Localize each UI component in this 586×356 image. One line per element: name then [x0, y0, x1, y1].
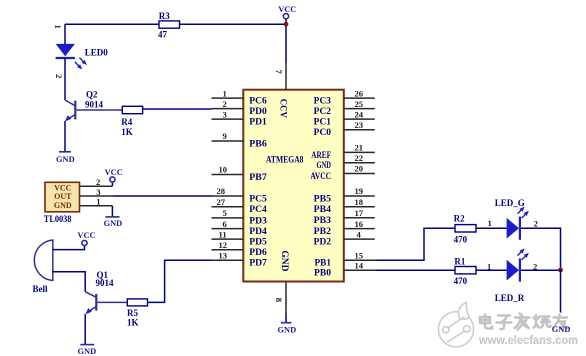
- wire LED_R cathode to right rail: [521, 269, 561, 271]
- svg-text:PB3: PB3: [314, 215, 332, 225]
- svg-text:8: 8: [274, 298, 284, 303]
- svg-text:4: 4: [357, 229, 362, 239]
- svg-text:PC1: PC1: [314, 117, 332, 127]
- pin 7 stub top: [285, 62, 287, 90]
- ground under chip pin 8: [281, 322, 292, 324]
- svg-text:2: 2: [534, 219, 538, 229]
- svg-text:GND: GND: [280, 250, 290, 272]
- resistor R2: [455, 225, 476, 232]
- pin 9 PB6: [212, 140, 244, 142]
- svg-text:16: 16: [355, 219, 364, 229]
- svg-text:11: 11: [219, 229, 227, 239]
- wire R4 to chip pin 2: [143, 108, 212, 110]
- svg-text:PD6: PD6: [249, 247, 267, 257]
- pin 5 PD3: [212, 217, 244, 219]
- svg-text:1: 1: [96, 197, 100, 207]
- resistor R1: [455, 267, 476, 274]
- resistor R4: [122, 106, 142, 113]
- svg-text:PC5: PC5: [249, 193, 267, 203]
- node junction top: [284, 22, 289, 27]
- pin 17 PB3: [344, 217, 375, 219]
- pin 2 PD0: [212, 108, 244, 110]
- svg-text:13: 13: [219, 251, 228, 261]
- svg-text:VCC: VCC: [54, 183, 72, 192]
- wire LED0 cathode to Q2 collector: [64, 58, 66, 100]
- svg-text:VCC: VCC: [105, 168, 123, 177]
- svg-text:PD3: PD3: [249, 215, 267, 225]
- svg-text:12: 12: [219, 240, 228, 250]
- pin 28 PC5: [212, 195, 244, 197]
- svg-text:3: 3: [223, 109, 227, 119]
- svg-text:2: 2: [223, 99, 227, 109]
- svg-text:PB6: PB6: [249, 138, 267, 148]
- pin 13 PD7: [212, 259, 244, 261]
- svg-text:5: 5: [223, 208, 227, 218]
- wire right rail to ground: [560, 270, 562, 322]
- svg-text:1: 1: [223, 88, 227, 98]
- svg-text:R1: R1: [454, 256, 465, 266]
- svg-text:www.elecfans.com: www.elecfans.com: [478, 334, 578, 347]
- svg-text:9014: 9014: [96, 278, 115, 288]
- svg-text:PC6: PC6: [249, 96, 267, 106]
- svg-text:470: 470: [454, 234, 468, 244]
- svg-text:19: 19: [355, 186, 364, 196]
- LED LED_R: [507, 260, 519, 281]
- pin 24 PC1: [344, 118, 375, 120]
- wire LED_G cathode to right rail: [521, 228, 561, 270]
- svg-text:R3: R3: [159, 11, 170, 21]
- svg-text:6: 6: [223, 219, 228, 229]
- svg-text:9: 9: [223, 131, 227, 141]
- wire PB0 to R1: [375, 269, 455, 271]
- svg-text:PB5: PB5: [314, 193, 332, 203]
- IC U2 TL0038: [45, 182, 80, 212]
- svg-text:1: 1: [487, 261, 491, 271]
- pin 23 PC0: [344, 129, 375, 131]
- transistor Q1 9014: [85, 292, 96, 298]
- svg-text:CCV: CCV: [278, 99, 288, 118]
- svg-text:2: 2: [54, 74, 64, 78]
- svg-text:18: 18: [355, 197, 364, 207]
- svg-text:28: 28: [217, 186, 226, 196]
- svg-text:TL0038: TL0038: [44, 214, 72, 224]
- wire R2 to LED_G: [476, 227, 507, 229]
- svg-text:VCC: VCC: [278, 5, 296, 14]
- power VCC at TL0038: [110, 177, 115, 182]
- pin 25 PC2: [344, 108, 375, 110]
- watermark text 电子发烧友 (drawn strokes): [480, 314, 568, 330]
- LED LED0: [56, 44, 75, 56]
- svg-text:GND: GND: [278, 325, 297, 334]
- svg-text:PC3: PC3: [314, 96, 332, 106]
- power VCC at bell: [82, 240, 87, 245]
- pin 10 PB7: [212, 174, 244, 176]
- pin 6 PD4: [212, 228, 244, 230]
- wire TL0038 GND pin 1: [80, 205, 113, 207]
- svg-text:GND: GND: [78, 347, 97, 356]
- pin 8 stub bottom: [285, 282, 287, 314]
- pin 22 GND: [344, 162, 375, 164]
- wire R1 to LED_R: [476, 269, 507, 271]
- pin 15 PB1: [344, 259, 375, 261]
- pin 11 PD5: [212, 238, 244, 240]
- wire VCC to chip pin 7: [285, 19, 287, 62]
- svg-text:ATMEGA8: ATMEGA8: [266, 154, 304, 164]
- pin 20 AVCC: [344, 173, 375, 175]
- svg-text:470: 470: [454, 276, 468, 286]
- svg-text:OUT: OUT: [54, 192, 72, 201]
- svg-text:PD2: PD2: [314, 237, 332, 247]
- svg-text:PB1: PB1: [315, 258, 332, 268]
- ground under Q1: [80, 344, 94, 346]
- pin 12 PD6: [212, 249, 244, 251]
- pin 19 PB5: [344, 195, 375, 197]
- wire Q1 emitter to ground: [84, 314, 86, 344]
- LED LED_G: [507, 218, 519, 239]
- wire bell top terminal to VCC: [53, 246, 85, 250]
- pin 14 PB0: [344, 269, 375, 271]
- svg-text:1: 1: [53, 25, 63, 29]
- svg-text:VCC: VCC: [77, 231, 95, 240]
- svg-text:47: 47: [158, 29, 168, 39]
- pin 4 PD2: [344, 238, 375, 240]
- svg-text:2: 2: [96, 177, 100, 187]
- pin 26 PC3: [344, 97, 375, 99]
- wire left vertical LED0 anode: [64, 24, 66, 44]
- svg-text:10: 10: [219, 165, 228, 175]
- svg-text:PB4: PB4: [314, 204, 332, 214]
- power VCC top: [283, 14, 288, 19]
- buzzer Bell: [34, 240, 53, 281]
- svg-text:21: 21: [355, 143, 364, 153]
- svg-text:LED0: LED0: [85, 48, 109, 58]
- svg-text:R5: R5: [127, 308, 138, 318]
- node junction right rail: [558, 268, 563, 273]
- pin 21 AREF: [344, 151, 375, 153]
- svg-text:GND: GND: [104, 219, 123, 228]
- svg-text:20: 20: [355, 164, 364, 174]
- svg-text:R4: R4: [121, 117, 132, 127]
- svg-text:GND: GND: [56, 155, 75, 164]
- svg-text:Bell: Bell: [33, 284, 48, 294]
- svg-text:24: 24: [355, 109, 364, 119]
- pin 16 PB2: [344, 228, 375, 230]
- svg-text:PC0: PC0: [314, 127, 332, 137]
- wire Q2 emitter to ground: [64, 121, 66, 152]
- ground under Q2: [59, 151, 71, 153]
- IC U1 ATMEGA8 body: [243, 90, 343, 282]
- svg-text:GND: GND: [552, 325, 571, 334]
- svg-text:GND: GND: [317, 160, 332, 170]
- transistor Q2 9014: [65, 100, 75, 106]
- pin 3 PD1: [212, 118, 244, 120]
- svg-text:PB2: PB2: [314, 226, 332, 236]
- svg-text:26: 26: [355, 88, 364, 98]
- svg-text:14: 14: [355, 260, 364, 270]
- svg-text:PD0: PD0: [249, 106, 267, 116]
- svg-text:1K: 1K: [127, 318, 139, 328]
- svg-text:PD1: PD1: [249, 117, 267, 127]
- svg-text:1K: 1K: [121, 127, 133, 137]
- svg-text:22: 22: [355, 153, 364, 163]
- svg-text:AVCC: AVCC: [310, 171, 331, 181]
- svg-text:17: 17: [355, 208, 364, 218]
- wire PB1 to R2: [375, 228, 455, 260]
- svg-text:PB0: PB0: [314, 268, 332, 278]
- wire TL0038 VCC pin 2: [80, 185, 113, 187]
- wire bell bottom terminal to Q1 collector: [53, 272, 86, 292]
- svg-text:PC2: PC2: [314, 106, 332, 116]
- svg-text:PD7: PD7: [249, 258, 267, 268]
- ground under TL0038 pin 1: [105, 216, 119, 218]
- svg-text:GND: GND: [54, 201, 72, 210]
- svg-text:23: 23: [355, 120, 364, 130]
- watermark logo: [438, 302, 473, 347]
- svg-text:7: 7: [274, 70, 284, 75]
- svg-text:PC4: PC4: [249, 204, 267, 214]
- wire R5 to chip pin 13: [148, 260, 212, 302]
- svg-text:AREF: AREF: [311, 150, 331, 160]
- svg-text:3: 3: [96, 187, 100, 197]
- svg-text:9014: 9014: [85, 100, 104, 110]
- resistor R3: [159, 21, 180, 28]
- svg-text:PD5: PD5: [249, 237, 267, 247]
- wire TL0038 OUT pin 3 to chip pin 28: [80, 195, 113, 197]
- pin 27 PC4: [212, 206, 244, 208]
- svg-text:R2: R2: [454, 213, 465, 223]
- svg-text:LED_R: LED_R: [495, 293, 525, 303]
- svg-text:15: 15: [355, 251, 364, 261]
- svg-text:27: 27: [217, 197, 226, 207]
- svg-text:Q2: Q2: [86, 89, 98, 99]
- resistor R5: [127, 299, 147, 306]
- svg-text:PD4: PD4: [249, 226, 267, 236]
- svg-text:1: 1: [488, 218, 492, 228]
- svg-text:LED_G: LED_G: [495, 198, 525, 208]
- svg-text:25: 25: [355, 99, 364, 109]
- svg-text:PB7: PB7: [249, 172, 267, 182]
- wire top rail from LED0 anode to VCC junction: [65, 23, 286, 25]
- ground right rail: [555, 321, 566, 323]
- pin 1 PC6: [212, 97, 244, 99]
- pin 18 PB4: [344, 206, 375, 208]
